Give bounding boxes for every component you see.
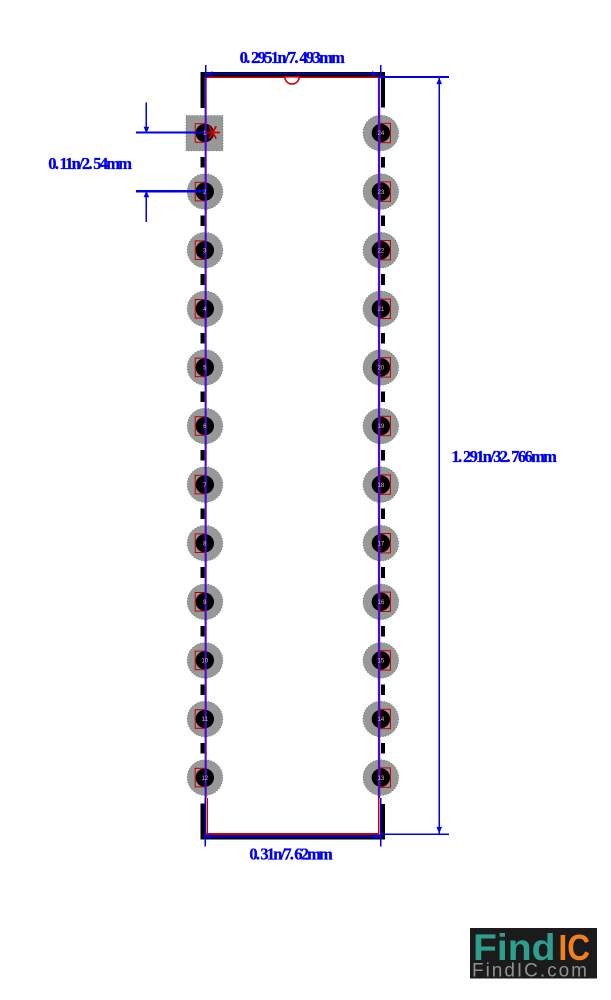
svg-text:18: 18 (378, 483, 385, 489)
svg-text:0. 31n/7. 62mm: 0. 31n/7. 62mm (249, 845, 333, 864)
svg-text:0. 2951n/7. 493mm: 0. 2951n/7. 493mm (240, 48, 346, 67)
svg-text:10: 10 (201, 659, 208, 665)
svg-text:14: 14 (378, 717, 385, 723)
svg-text:21: 21 (378, 307, 385, 313)
svg-text:23: 23 (378, 190, 385, 196)
svg-text:0. 11n/2. 54mm: 0. 11n/2. 54mm (48, 154, 132, 173)
svg-text:19: 19 (378, 424, 385, 430)
svg-text:22: 22 (378, 248, 385, 254)
svg-text:17: 17 (378, 541, 385, 547)
svg-text:13: 13 (378, 776, 385, 782)
svg-text:24: 24 (378, 131, 385, 137)
svg-text:1. 291n/32. 766mm: 1. 291n/32. 766mm (452, 447, 558, 466)
svg-text:16: 16 (378, 600, 385, 606)
svg-text:12: 12 (201, 776, 208, 782)
svg-text:20: 20 (378, 366, 385, 372)
svg-text:15: 15 (378, 659, 385, 665)
svg-text:11: 11 (202, 717, 209, 723)
